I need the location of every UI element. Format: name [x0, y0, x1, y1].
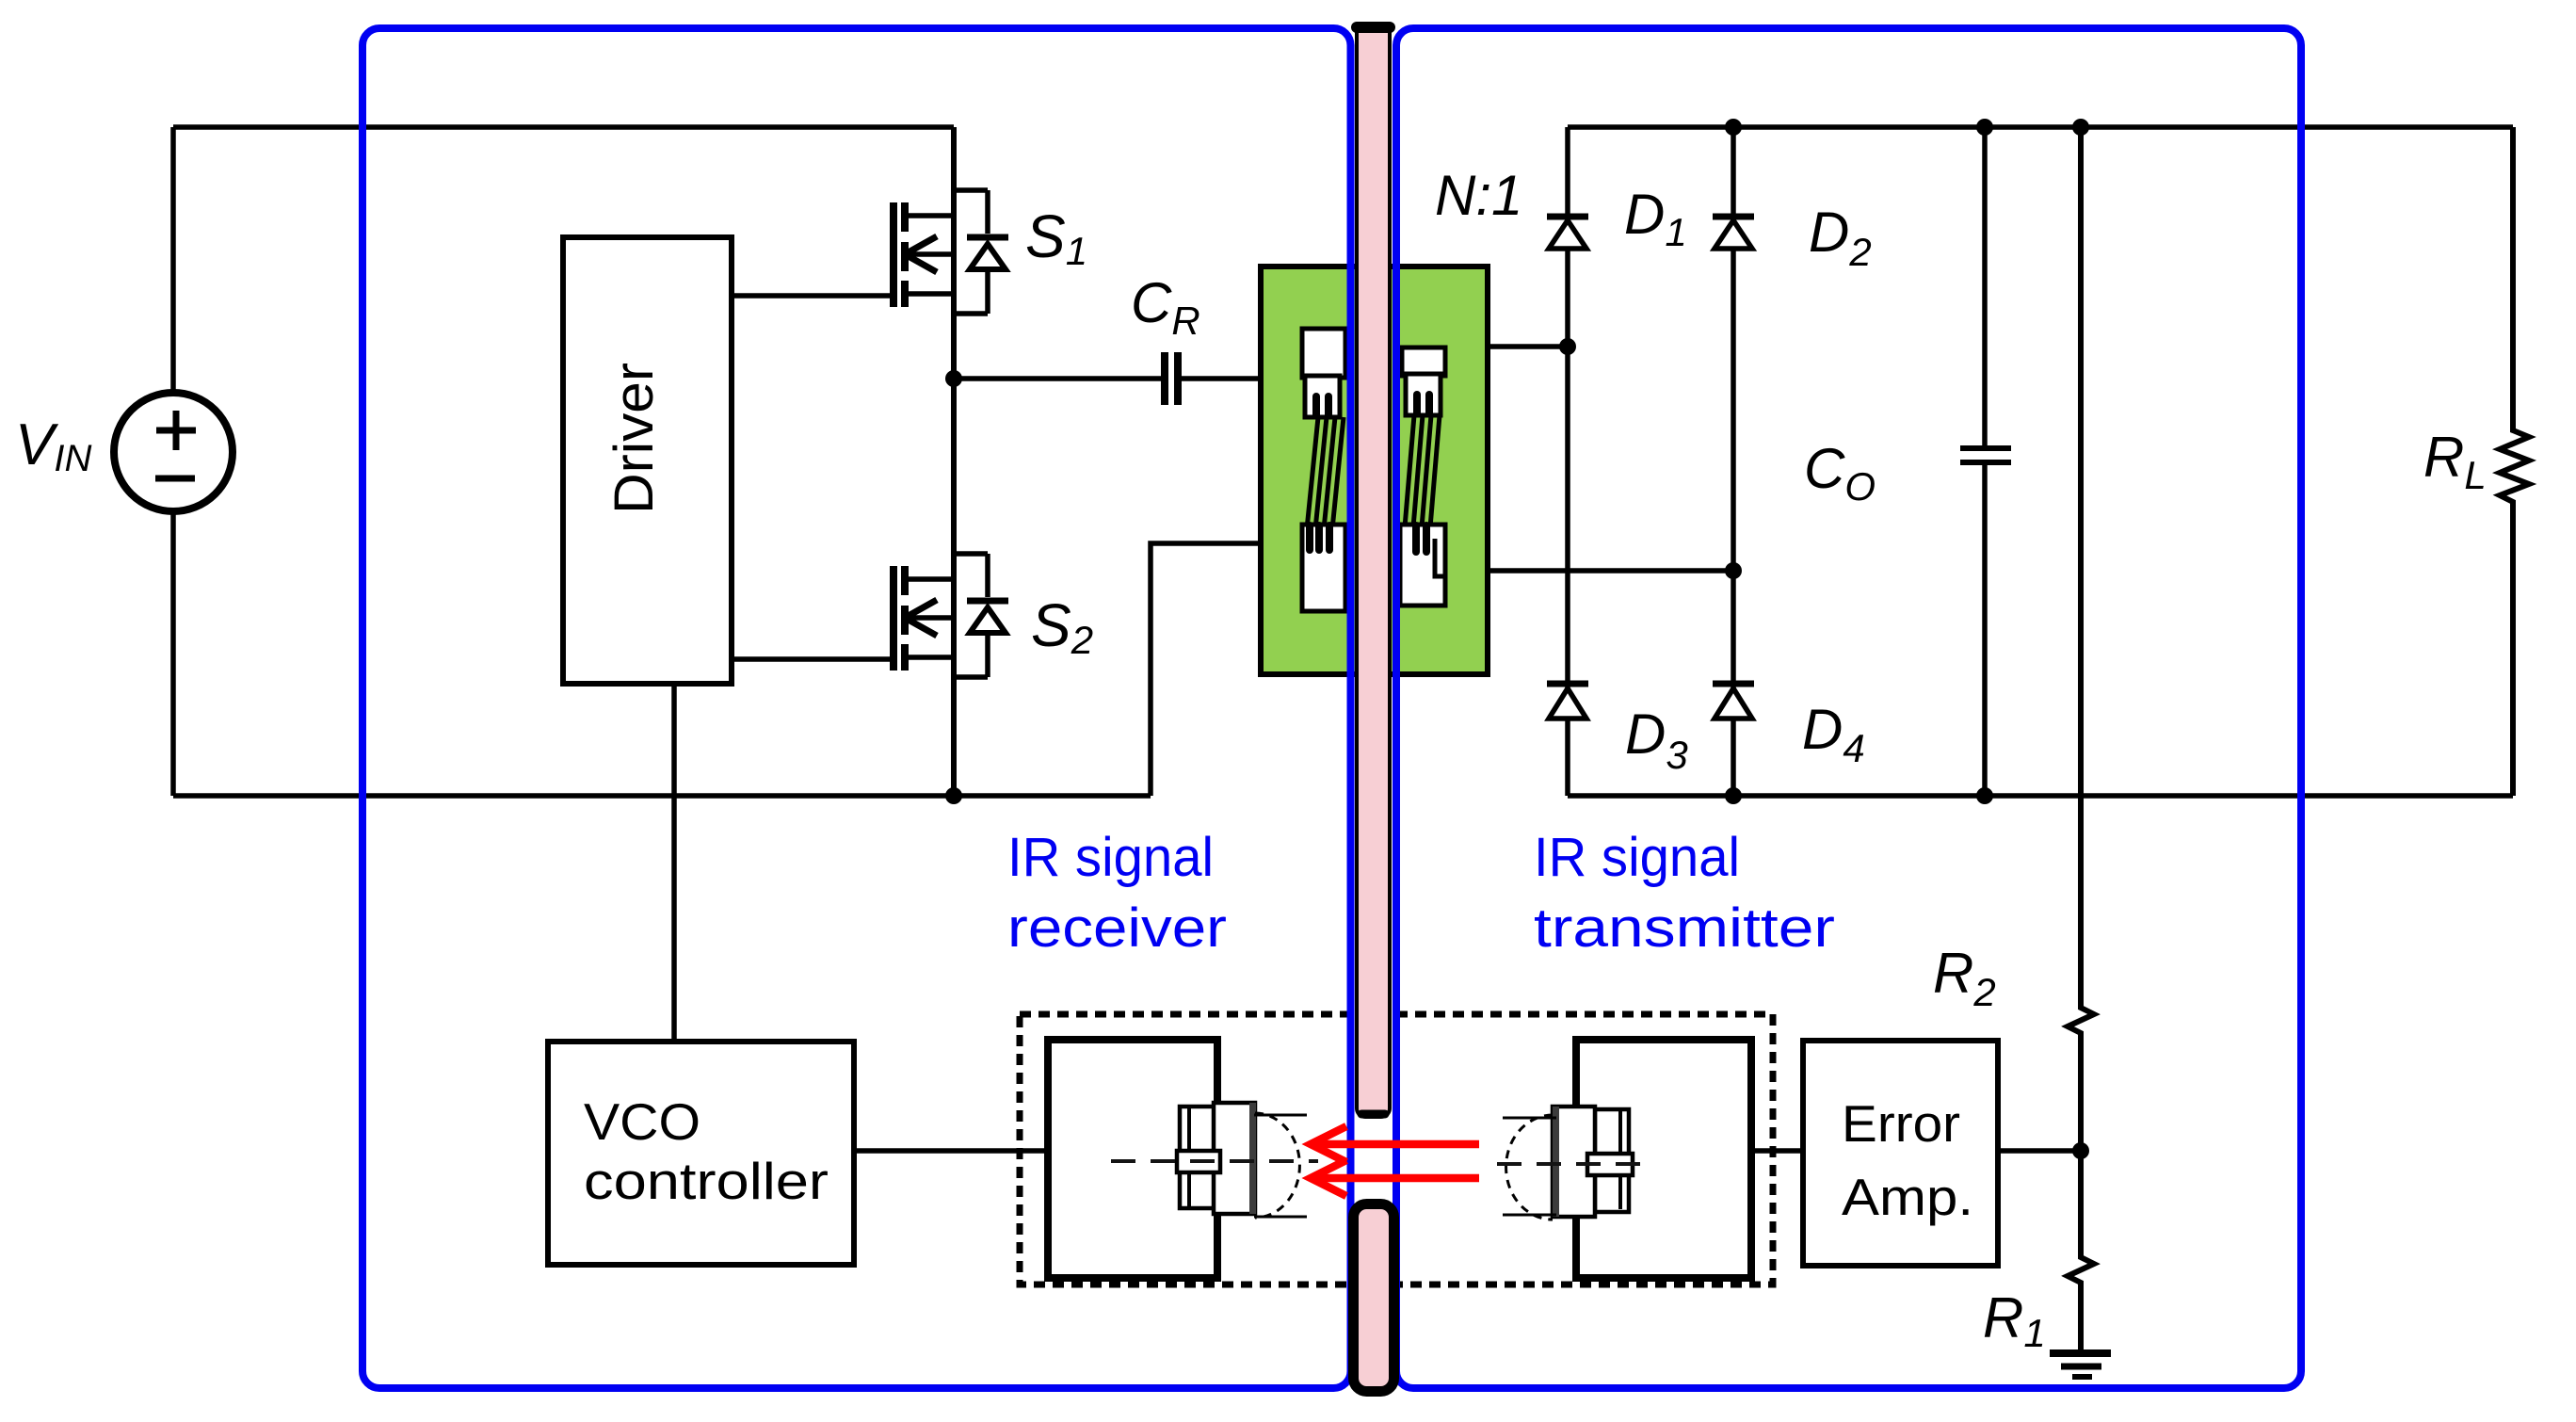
wire half-bridge vertical S1 drain to S2 source [951, 127, 957, 796]
ground [2050, 1353, 2111, 1377]
red IR arrow lower [1311, 1160, 1479, 1196]
wire gate S2 [732, 656, 894, 662]
svg-text:VCO: VCO [584, 1092, 700, 1151]
wire bottom rail left [173, 793, 1151, 799]
node R2 top rail junction [2072, 119, 2089, 136]
node D4 bottom rail junction [1725, 787, 1742, 804]
wire VCO output [854, 1148, 1048, 1154]
wire transmitter to error amp [1751, 1148, 1803, 1154]
photodiode package (receiver) [1111, 1103, 1318, 1218]
wire error amp to feedback node [1998, 1148, 2081, 1154]
svg-text:transmitter: transmitter [1534, 897, 1835, 959]
transformer primary bobbin top [1302, 329, 1345, 417]
wire resonant cap to transformer primary [1182, 376, 1261, 381]
wire gate S1 [732, 293, 894, 299]
transformer secondary winding strands [1404, 415, 1440, 539]
isolation barrier lower segment [1354, 1204, 1394, 1392]
wire secondary bottom terminal [1488, 568, 1733, 574]
transformer primary winding strands [1306, 417, 1344, 539]
node half-bridge midpoint junction [945, 370, 962, 387]
node CO bottom rail junction [1976, 787, 1993, 804]
IR receiver box [1048, 1040, 1217, 1278]
IR LED package (transmitter) [1497, 1107, 1643, 1220]
transistor Q S2 [894, 554, 1008, 677]
wire midpoint node to resonant cap [954, 376, 1161, 381]
wire D1 D3 column [1565, 127, 1570, 796]
transformer secondary wire hook [1435, 539, 1444, 576]
transformer secondary bobbin top [1402, 347, 1445, 415]
resistor R2 [2068, 127, 2094, 1151]
svg-text:IR signal: IR signal [1534, 827, 1740, 888]
wire VIN top lead [170, 127, 176, 393]
isolation barrier upper segment [1357, 24, 1390, 1117]
resistor R1 [2068, 1151, 2094, 1353]
svg-text:N:1: N:1 [1435, 164, 1522, 227]
diode D2 [1713, 217, 1754, 249]
wire CO column top [1982, 127, 1988, 445]
resistor RL [2500, 127, 2529, 796]
dashed box IR coupling [1020, 1014, 1773, 1285]
label IR signal transmitter [1534, 827, 1835, 959]
label IR signal receiver [1007, 827, 1227, 959]
transformer primary bobbin bottom [1302, 525, 1345, 611]
VCO controller block [548, 1042, 854, 1265]
node secondary top to D1 D3 column junction [1559, 338, 1576, 355]
diode D4 [1713, 684, 1754, 719]
wire top rail right [1568, 124, 2513, 130]
diode D1 [1547, 217, 1588, 249]
node D2 top rail junction [1725, 119, 1742, 136]
wire CO column bottom [1982, 465, 1988, 796]
svg-text:Error: Error [1842, 1094, 1960, 1153]
wire D2 D4 column [1731, 127, 1736, 796]
svg-text:IR signal: IR signal [1007, 827, 1214, 888]
wires-layer [173, 127, 2513, 1151]
capacitor CR [1165, 352, 1178, 405]
wire top rail left [173, 124, 954, 130]
wire primary return (bottom rail to transformer) [1151, 543, 1261, 796]
Driver block [563, 237, 732, 684]
capacitor CO [1960, 448, 2011, 462]
wire VIN bottom lead [170, 511, 176, 796]
node secondary bottom to D2 D4 column junction [1725, 562, 1742, 579]
wire driver to VCO controller [671, 684, 677, 1042]
source VIN [114, 393, 233, 511]
svg-text:Driver: Driver [604, 363, 665, 514]
blue box left (IR receiver side enclosure) [362, 28, 1351, 1388]
red IR arrow upper [1311, 1126, 1479, 1162]
blue box right (IR transmitter side enclosure) [1396, 28, 2301, 1388]
svg-text:controller: controller [584, 1152, 829, 1210]
svg-text:Amp.: Amp. [1842, 1168, 1973, 1226]
wire secondary top terminal [1488, 344, 1568, 349]
transistor Q S1 [894, 190, 1008, 314]
node feedback divider junction [2072, 1142, 2089, 1159]
wire bottom rail right [1568, 793, 2513, 799]
transformer core [1261, 267, 1488, 674]
node S2 source to bottom rail junction [945, 787, 962, 804]
Error Amp block [1803, 1041, 1998, 1266]
IR transmitter box [1576, 1040, 1751, 1278]
diode D3 [1547, 684, 1588, 719]
svg-text:receiver: receiver [1007, 897, 1227, 959]
transformer secondary bobbin bottom [1400, 525, 1445, 606]
node CO top rail junction [1976, 119, 1993, 136]
